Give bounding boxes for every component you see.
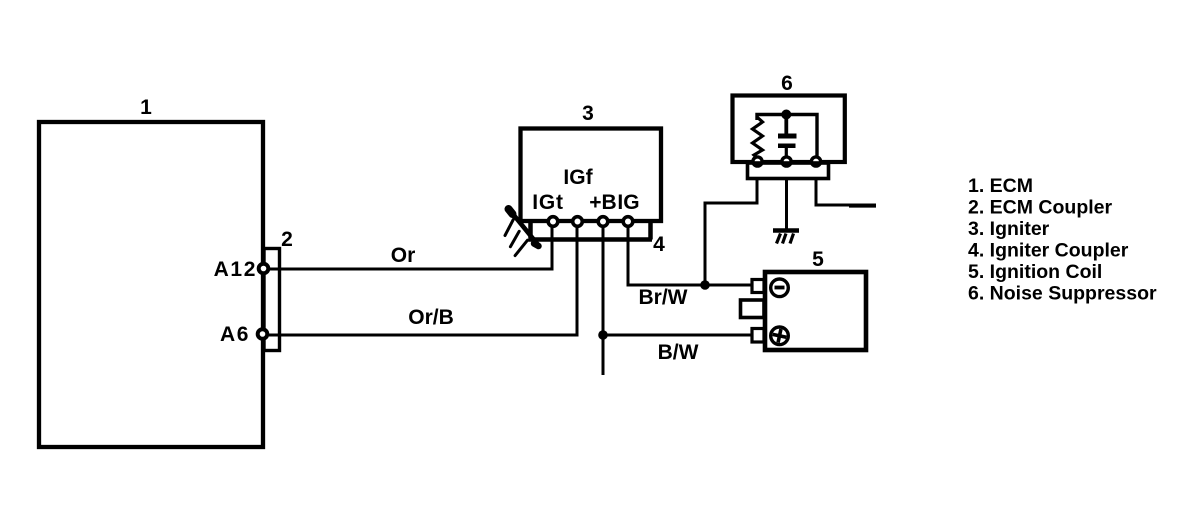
- svg-text:4. Igniter Coupler: 4. Igniter Coupler: [968, 240, 1129, 262]
- igniter terminal IGt: [548, 217, 558, 227]
- ignition coil box 5: [765, 272, 866, 350]
- legend list: [968, 175, 1157, 305]
- svg-text:3. Igniter: 3. Igniter: [968, 218, 1050, 240]
- wire Br/W (IG pin to coil -): [628, 227, 752, 285]
- svg-text:3: 3: [582, 102, 594, 125]
- svg-text:Br/W: Br/W: [639, 286, 688, 309]
- svg-text:Or: Or: [391, 244, 416, 267]
- coil minus terminal: [771, 279, 789, 297]
- svg-text:6: 6: [781, 72, 793, 95]
- resistor R: [753, 117, 763, 158]
- svg-text:A12: A12: [214, 258, 257, 281]
- suppressor terminal 1: [753, 157, 762, 166]
- igniter coupler 4: [531, 223, 653, 240]
- suppressor coupler: [748, 163, 829, 179]
- terminal A12: [259, 264, 269, 274]
- wire suppressor left lead to Br/W node: [705, 180, 757, 285]
- svg-text:B/W: B/W: [658, 341, 699, 364]
- wire Or/B (A6 to IGf pin): [269, 226, 577, 335]
- svg-text:IGt: IGt: [532, 191, 564, 214]
- wire to ground: [785, 179, 788, 229]
- igniter terminal IGf: [573, 217, 583, 227]
- coil tab minus: [752, 280, 764, 293]
- junction Br/W node: [700, 280, 710, 290]
- svg-text:2. ECM Coupler: 2. ECM Coupler: [968, 197, 1113, 219]
- coil plus terminal: [771, 327, 789, 345]
- svg-text:IG: IG: [617, 191, 639, 214]
- svg-text:A6: A6: [220, 323, 250, 346]
- svg-text:5: 5: [812, 248, 824, 271]
- junction B/W node: [598, 330, 608, 340]
- ECM coupler 2: [264, 249, 280, 351]
- wire Or (A12 to IGt): [270, 226, 552, 269]
- svg-text:1: 1: [140, 96, 152, 119]
- svg-text:6. Noise Suppressor: 6. Noise Suppressor: [968, 283, 1157, 305]
- svg-text:IGf: IGf: [563, 166, 593, 189]
- svg-text:1. ECM: 1. ECM: [968, 175, 1033, 197]
- igniter terminal +B: [598, 217, 608, 227]
- coil tab plus: [752, 329, 764, 343]
- svg-text:2: 2: [281, 228, 293, 251]
- igniter terminal IG: [623, 217, 633, 227]
- shield ground hatch: [505, 208, 539, 256]
- suppressor terminal 2: [782, 157, 791, 166]
- wire to ignition switch stub: [816, 179, 876, 205]
- noise suppressor box 6: [733, 96, 845, 163]
- suppressor terminal 3: [811, 157, 820, 166]
- terminal A6: [258, 329, 268, 339]
- svg-text:5. Ignition Coil: 5. Ignition Coil: [968, 261, 1102, 283]
- wire B/W (+B pin down and to coil +): [602, 227, 605, 375]
- svg-text:+B: +B: [589, 191, 616, 214]
- ground symbol: [773, 231, 799, 244]
- svg-text:4: 4: [653, 233, 665, 256]
- igniter box 3: [521, 129, 662, 222]
- suppressor internal top wire: [757, 115, 817, 158]
- svg-text:Or/B: Or/B: [408, 306, 454, 329]
- coil tab middle: [741, 300, 765, 318]
- capacitor C: [784, 115, 788, 134]
- ECM box 1: [39, 122, 263, 447]
- node dot: [781, 110, 791, 120]
